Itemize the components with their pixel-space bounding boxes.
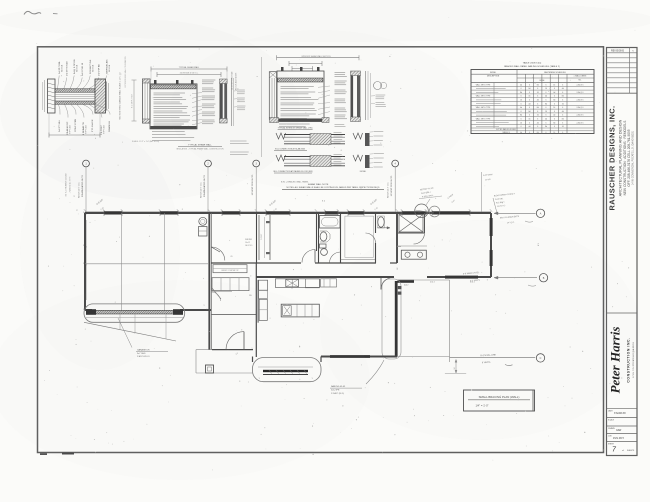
svg-text:6: 6 xyxy=(537,96,538,98)
svg-text:16: 16 xyxy=(528,119,530,121)
garage bottom wall and overhead door xyxy=(84,304,211,322)
svg-text:8 MAR 06: 8 MAR 06 xyxy=(614,411,626,415)
svg-text:6: 6 xyxy=(537,111,538,113)
svg-text:6: 6 xyxy=(562,115,563,117)
svg-text:2-8d @ 6: 2-8d @ 6 xyxy=(577,107,584,109)
left margin rotated dimension note xyxy=(66,173,72,197)
bath door xyxy=(330,252,341,263)
svg-text:16: 16 xyxy=(553,132,555,134)
svg-text:8d: 8d xyxy=(528,111,530,113)
svg-text:5/8 SHTG: 5/8 SHTG xyxy=(497,205,506,208)
svg-text:6: 6 xyxy=(562,92,563,94)
title block form rows xyxy=(607,409,638,454)
bedroom2 closet xyxy=(259,215,270,260)
svg-text:16: 16 xyxy=(545,88,547,90)
svg-text:SHEET: SHEET xyxy=(608,444,615,446)
svg-text:4d: 4d xyxy=(545,119,547,121)
water heater and furnace xyxy=(199,217,208,236)
svg-text:8d: 8d xyxy=(537,84,539,86)
svg-text:6: 6 xyxy=(554,103,555,105)
wall stub east of family room xyxy=(398,280,415,287)
svg-text:6: 6 xyxy=(521,119,522,121)
svg-text:NOTCH 4 X 10: NOTCH 4 X 10 xyxy=(420,188,434,192)
svg-text:8d: 8d xyxy=(528,88,530,90)
svg-text:6: 6 xyxy=(537,119,538,121)
svg-text:6: 6 xyxy=(554,126,555,128)
grid bubble B with leader xyxy=(200,160,211,213)
grid bubble A with leader xyxy=(78,160,89,213)
svg-text:2-8d @ 6: 2-8d @ 6 xyxy=(577,122,584,124)
entry room and front door xyxy=(212,263,256,357)
svg-text:6: 6 xyxy=(537,103,538,105)
svg-text:DRAWN: DRAWN xyxy=(608,427,615,430)
kitchen island xyxy=(281,304,319,317)
svg-text:WALL SHTG TYPE: WALL SHTG TYPE xyxy=(476,83,491,86)
wall dimension slash ticks xyxy=(83,209,492,311)
svg-text:6: 6 xyxy=(562,84,563,86)
master closet with X xyxy=(397,213,425,244)
svg-text:(TABLE 3): (TABLE 3) xyxy=(502,131,510,134)
detail D1 vertical notes xyxy=(119,56,128,120)
dining room label xyxy=(245,239,253,247)
svg-text:5 1: 5 1 xyxy=(322,201,326,203)
svg-text:x WALL LINING: x WALL LINING xyxy=(574,74,587,77)
svg-text:6: 6 xyxy=(521,96,522,98)
svg-text:6: 6 xyxy=(546,84,547,86)
bedroom2 east wall and door xyxy=(302,213,317,263)
svg-text:4'-6 1/2": 4'-6 1/2" xyxy=(370,199,378,206)
title strip divider line xyxy=(607,312,638,314)
svg-text:4' WDW: 4' WDW xyxy=(447,194,454,200)
svg-text:8d: 8d xyxy=(520,115,522,117)
svg-text:16: 16 xyxy=(528,96,530,98)
drawing title box xyxy=(464,390,535,411)
svg-text:6: 6 xyxy=(546,100,547,102)
nailing schedule table title xyxy=(504,62,560,68)
bottom right leader with bubble xyxy=(445,354,545,374)
svg-text:8d: 8d xyxy=(562,96,564,98)
svg-text:6: 6 xyxy=(537,126,538,128)
bath sink xyxy=(320,231,330,242)
svg-text:4d: 4d xyxy=(537,122,539,124)
svg-text:6: 6 xyxy=(521,126,522,128)
covered patio outline xyxy=(397,280,450,362)
svg-text:8d: 8d xyxy=(537,132,539,134)
hall to family room door xyxy=(381,278,393,290)
svg-text:2x10 DBL: 2x10 DBL xyxy=(495,198,503,201)
dining credenza xyxy=(213,265,247,273)
svg-text:WALL SHTG TYPE: WALL SHTG TYPE xyxy=(476,106,491,109)
svg-text:16: 16 xyxy=(545,111,547,113)
notch leader note xyxy=(419,188,442,205)
grid bubble C with leader xyxy=(252,160,260,213)
svg-text:25 WR: 25 WR xyxy=(485,179,492,182)
svg-text:7'-0": 7'-0" xyxy=(374,207,379,211)
exterior wall top xyxy=(85,210,491,216)
binding tick marks below border xyxy=(40,453,74,455)
svg-text:14 W. COMMERCIAL POCATELLO, ID: 14 W. COMMERCIAL POCATELLO, IDAHO 83201 xyxy=(632,130,635,185)
svg-text:4d: 4d xyxy=(520,132,522,134)
svg-text:10x12: 10x12 xyxy=(245,242,250,244)
svg-text:4d: 4d xyxy=(537,100,539,102)
svg-text:JOB: JOB xyxy=(608,435,612,437)
svg-text:2-8d @ 6: 2-8d @ 6 xyxy=(577,100,584,102)
exterior wall master bottom xyxy=(427,276,491,279)
pantry cabinets xyxy=(212,278,249,299)
garage door label xyxy=(118,318,168,358)
svg-text:2-8d @ 6: 2-8d @ 6 xyxy=(577,92,584,94)
svg-text:4d: 4d xyxy=(562,88,564,90)
entry porch outline and post xyxy=(196,350,253,373)
svg-text:RAUSCHER DESIGNS, INC.: RAUSCHER DESIGNS, INC. xyxy=(608,106,617,211)
svg-text:6: 6 xyxy=(521,111,522,113)
bathroom walls xyxy=(319,213,341,263)
svg-text:6: 6 xyxy=(529,132,530,134)
svg-text:GYP BD NAILING SCHED: GYP BD NAILING SCHED xyxy=(496,128,517,131)
svg-text:16: 16 xyxy=(537,92,539,94)
detail D3a sill connection detail upper xyxy=(274,132,383,151)
svg-text:16: 16 xyxy=(520,100,522,102)
driveway slope line xyxy=(84,314,176,341)
svg-text:16: 16 xyxy=(553,84,555,86)
shear wall general note xyxy=(281,180,384,189)
svg-text:4d: 4d xyxy=(553,92,555,94)
svg-text:16: 16 xyxy=(562,103,564,105)
svg-text:EDGE: EDGE xyxy=(540,80,546,82)
hall alcove fixture xyxy=(378,216,391,229)
svg-text:6: 6 xyxy=(529,92,530,94)
stray pencil mark top-left xyxy=(24,11,58,14)
right note block above master xyxy=(493,192,515,213)
rotated small dim right side xyxy=(538,242,540,246)
svg-text:8d: 8d xyxy=(520,92,522,94)
dining room east wall xyxy=(256,213,258,263)
svg-text:5/8 X 10 ANCR BLTS: 5/8 X 10 ANCR BLTS xyxy=(500,215,520,220)
dimension text cluster center-right xyxy=(370,194,456,211)
company name vertical text RAUSCHER DESIGNS INC xyxy=(608,106,635,211)
svg-text:BLDG PAPER+TYVEK 4: BLDG PAPER+TYVEK 4 xyxy=(494,192,515,197)
detail D1 beam section drawing xyxy=(43,59,112,138)
svg-text:DATE: DATE xyxy=(608,410,613,413)
exterior wall garage left xyxy=(85,213,87,310)
breakfast bay window xyxy=(253,357,322,382)
svg-text:6: 6 xyxy=(529,100,530,102)
toilet xyxy=(320,244,328,255)
svg-text:PLN 06.5: PLN 06.5 xyxy=(613,436,624,440)
svg-text:VAULTED: VAULTED xyxy=(245,244,253,247)
svg-text:6: 6 xyxy=(562,132,563,134)
misc dim ticks near entry xyxy=(203,268,399,356)
svg-text:6: 6 xyxy=(562,122,563,124)
svg-text:OFF. 208-466-5176 CELL 208-76: OFF. 208-466-5176 CELL 208-761-9095 xyxy=(627,129,631,186)
bathtub xyxy=(320,216,341,229)
svg-text:6: 6 xyxy=(546,132,547,134)
svg-text:SCALE: SCALE xyxy=(608,418,615,421)
detail D2 typical wall section xyxy=(132,66,246,150)
nailing schedule table grid xyxy=(471,70,594,134)
family room bottom wall xyxy=(321,355,397,358)
framing notes column left of D3 xyxy=(230,71,249,155)
Peter Harris script logo xyxy=(608,327,635,394)
svg-text:LIN: LIN xyxy=(230,256,233,258)
svg-text:16: 16 xyxy=(553,107,555,109)
porch label with leader xyxy=(330,360,384,395)
dining garage door arc xyxy=(211,247,225,261)
svg-text:8d: 8d xyxy=(553,122,555,124)
svg-text:6: 6 xyxy=(529,107,530,109)
notch callout bubbles xyxy=(415,204,440,218)
svg-text:GSR: GSR xyxy=(616,429,621,432)
refrigerator and tall cabinets xyxy=(258,280,268,323)
revisions table xyxy=(607,48,638,94)
window callout leader above master xyxy=(482,172,493,212)
svg-text:6: 6 xyxy=(554,111,555,113)
svg-text:8d: 8d xyxy=(545,103,547,105)
svg-text:8d: 8d xyxy=(545,126,547,128)
svg-text:8d NLS @ 4" O.C.: 8d NLS @ 4" O.C. xyxy=(388,181,390,198)
svg-text:4d: 4d xyxy=(520,107,522,109)
kitchen small text xyxy=(230,256,252,297)
svg-text:of: of xyxy=(622,450,624,452)
svg-text:ARCHITECTURAL PLANNING AND DES: ARCHITECTURAL PLANNING AND DESIGN xyxy=(619,119,623,196)
sheet border frame xyxy=(38,47,604,453)
svg-text:16: 16 xyxy=(537,115,539,117)
detail D3b sill connection detail lower xyxy=(273,154,383,174)
svg-text:4d: 4d xyxy=(562,111,564,113)
kitchen upper counter xyxy=(275,279,336,289)
svg-text:4'x4': 4'x4' xyxy=(451,199,456,203)
svg-text:6: 6 xyxy=(521,88,522,90)
svg-text:CLOSET: CLOSET xyxy=(261,234,263,240)
svg-text:6: 6 xyxy=(529,122,530,124)
svg-text:7: 7 xyxy=(612,447,617,454)
svg-text:8d: 8d xyxy=(553,100,555,102)
svg-text:BUFFET COUNTER TOP: BUFFET COUNTER TOP xyxy=(221,270,238,272)
dimension text cluster left xyxy=(73,195,105,212)
kitchen north wall xyxy=(256,276,394,278)
svg-text:6: 6 xyxy=(546,122,547,124)
svg-text:N: N xyxy=(632,51,634,53)
svg-text:4d: 4d xyxy=(553,115,555,117)
svg-text:6: 6 xyxy=(537,88,538,90)
svg-text:2-8d @ 6: 2-8d @ 6 xyxy=(577,84,584,86)
detail D3 wall section xyxy=(262,55,387,157)
window header leader with bubble xyxy=(463,272,548,286)
entry hall walls xyxy=(211,292,256,315)
svg-text:2-8d @ 6: 2-8d @ 6 xyxy=(577,115,584,117)
svg-text:WALL SHTG TYPE: WALL SHTG TYPE xyxy=(476,95,491,98)
svg-text:N-25 WDW: N-25 WDW xyxy=(483,174,493,177)
svg-text:6: 6 xyxy=(529,115,530,117)
svg-text:6: 6 xyxy=(554,119,555,121)
hall south wall xyxy=(211,262,397,264)
bedroom3 carpet border xyxy=(341,213,376,263)
svg-text:16: 16 xyxy=(520,122,522,124)
svg-text:4d: 4d xyxy=(520,84,522,86)
master bath vanity xyxy=(397,246,427,259)
svg-text:TABLE 2308.9.3(1): TABLE 2308.9.3(1) xyxy=(523,62,542,65)
svg-text:6: 6 xyxy=(554,96,555,98)
hall east wall xyxy=(396,213,398,263)
svg-text:6: 6 xyxy=(546,107,547,109)
svg-text:NO.: NO. xyxy=(578,79,582,81)
svg-text:DIN RM: DIN RM xyxy=(245,239,252,241)
svg-text:WALL SHTG TYPE: WALL SHTG TYPE xyxy=(476,118,491,121)
anchor bolt leader with bubble xyxy=(494,209,545,224)
svg-text:6: 6 xyxy=(521,103,522,105)
svg-text:6: 6 xyxy=(562,100,563,102)
garage house wall xyxy=(209,213,211,350)
svg-text:4d: 4d xyxy=(528,126,530,128)
title block strip outer box xyxy=(607,48,638,456)
master suite inner partition xyxy=(397,246,401,248)
svg-text:6: 6 xyxy=(546,92,547,94)
svg-text:REVISIONS: REVISIONS xyxy=(611,49,624,52)
svg-text:6: 6 xyxy=(546,115,547,117)
svg-text:DESCRIPTION: DESCRIPTION xyxy=(487,76,500,78)
svg-text:6: 6 xyxy=(554,88,555,90)
svg-text:A: A xyxy=(540,213,542,216)
svg-text:8d: 8d xyxy=(537,107,539,109)
svg-text:BRACED WALL PANEL NAILING SCHE: BRACED WALL PANEL NAILING SCHEDULE (TABL… xyxy=(504,65,560,68)
svg-text:4d: 4d xyxy=(545,96,547,98)
svg-text:8d: 8d xyxy=(562,119,564,121)
svg-text:4d: 4d xyxy=(528,103,530,105)
nailing schedule cell entries xyxy=(476,83,584,134)
grid bubble D with leader xyxy=(388,160,399,213)
svg-text:FASTENING SCHEDULE: FASTENING SCHEDULE xyxy=(544,71,566,74)
family room east wall with bracing marker xyxy=(382,279,401,359)
svg-text:DETAIL: DETAIL xyxy=(490,71,496,74)
svg-text:SHEETS: SHEETS xyxy=(627,450,635,452)
svg-text:6: 6 xyxy=(562,107,563,109)
dim text under master bottom wall xyxy=(430,282,475,284)
svg-text:6: 6 xyxy=(529,84,530,86)
svg-text:16: 16 xyxy=(562,126,564,128)
dimension text cluster center-left xyxy=(269,200,325,212)
exterior wall master right xyxy=(490,213,493,277)
svg-text:R22 BATT: R22 BATT xyxy=(496,201,506,205)
svg-text:4'-6 1/2": 4'-6 1/2" xyxy=(269,200,277,207)
garage interior slab joints xyxy=(85,213,208,310)
